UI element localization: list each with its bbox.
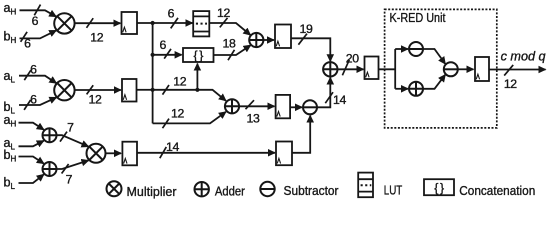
input b_H (row3)	[4, 148, 17, 164]
wire J2 to concat (6)	[153, 54, 182, 56]
subtractor legend subtractor symbol	[260, 182, 274, 196]
bus width label 18 on concat out	[223, 37, 236, 61]
bus width label 12 lower	[163, 107, 185, 129]
register R6	[276, 142, 292, 166]
svg-text:aH: aH	[4, 1, 17, 17]
svg-text:14: 14	[166, 140, 179, 154]
svg-text:6: 6	[24, 36, 31, 50]
wire split to A5	[395, 88, 408, 90]
svg-text:12: 12	[173, 74, 186, 88]
adder A2	[225, 99, 239, 113]
register R5	[276, 95, 291, 118]
legend LUT symbol	[358, 173, 373, 198]
input a_L (row3)	[4, 136, 16, 152]
svg-text:Multiplier: Multiplier	[127, 184, 178, 199]
input a_H (row3)	[4, 113, 17, 129]
wire A1 to R4	[263, 39, 274, 41]
subtractor S2	[409, 42, 423, 56]
wire A3 to M3 (7)	[57, 135, 89, 146]
wire a_H to A3	[19, 123, 44, 130]
bus width label 12 on M2 out	[87, 85, 102, 106]
wire A6 to R7 (20)	[338, 68, 364, 70]
svg-text:{ }: { }	[434, 181, 444, 195]
wire M3 to R3	[106, 152, 122, 154]
wire R2 out to vertical	[137, 89, 153, 91]
input b_L (row2)	[4, 100, 16, 116]
bus width label 6 on b_L	[24, 92, 37, 110]
input b_H (row1)	[4, 30, 17, 46]
bus width label 6 on concat feed	[159, 38, 171, 59]
register R2	[122, 79, 137, 102]
wire A5 to S3	[423, 75, 445, 89]
svg-text:12: 12	[90, 31, 103, 45]
wire upper 12 to A2	[153, 90, 226, 101]
wire R6 to S1	[292, 116, 310, 153]
input b_L (row3)	[4, 176, 16, 192]
legend multiplier symbol	[107, 181, 122, 196]
adder A3	[43, 128, 57, 142]
adder A5	[409, 82, 423, 96]
wire K-RED entry split	[394, 49, 396, 89]
wire a_H to M1 (6)	[20, 10, 57, 16]
wire b_L to A4	[19, 174, 44, 183]
wire R5 to S1	[290, 106, 302, 108]
bus width label 13 on A2 out	[246, 100, 260, 125]
svg-text:Subtractor: Subtractor	[284, 183, 340, 198]
bus width label 6 on a_L	[24, 62, 37, 80]
svg-text:20: 20	[346, 52, 359, 66]
bus width label 12 on output	[504, 65, 517, 91]
K-RED unit dashed box	[385, 9, 497, 128]
adder A1	[249, 33, 263, 47]
svg-text:7: 7	[66, 172, 73, 186]
svg-text:6: 6	[30, 92, 37, 106]
svg-text:12: 12	[504, 77, 517, 91]
bus width label 7 on A3 out	[60, 120, 74, 141]
wire M2 to R2 (12)	[75, 89, 121, 91]
concatenation CC1	[183, 48, 214, 62]
register R7	[365, 57, 379, 80]
svg-text:Concatenation: Concatenation	[459, 183, 535, 198]
wire M1 to R1 (12)	[75, 22, 121, 24]
svg-text:7: 7	[67, 120, 74, 134]
legend concatenation symbol	[424, 179, 454, 195]
wire A4 to M3 (7)	[57, 160, 89, 169]
svg-text:bL: bL	[4, 176, 16, 192]
multiplier M1	[54, 13, 74, 33]
svg-text:Adder: Adder	[215, 183, 246, 198]
LUT U1	[193, 11, 209, 36]
wire R3 to R6 (14)	[137, 152, 275, 154]
svg-text:6: 6	[168, 7, 175, 21]
svg-text:bH: bH	[4, 30, 17, 46]
svg-text:19: 19	[300, 22, 313, 36]
wire a_L to M2 (6)	[19, 76, 56, 84]
subtractor S1	[303, 100, 317, 114]
svg-text:12: 12	[217, 6, 230, 20]
svg-text:12: 12	[89, 93, 102, 107]
adder legend adder symbol	[195, 182, 209, 196]
svg-text:aL: aL	[4, 69, 16, 85]
bus width label 6 on b_H	[21, 32, 32, 51]
input a_H (row1)	[4, 1, 17, 17]
adder A6	[323, 62, 337, 76]
wire lower 12 to A2	[153, 112, 226, 124]
wire S2 to S3	[423, 49, 445, 64]
bus width label 6 on R1-LUT	[168, 7, 178, 29]
bus width label 7 on A4 out	[62, 164, 73, 186]
junction J2 on vertical (6 branch)	[151, 53, 155, 57]
svg-text:14: 14	[333, 93, 346, 107]
register R1	[122, 12, 138, 34]
wire concat feed vertical	[196, 64, 198, 90]
wire b_H to A4	[19, 157, 44, 164]
register R8	[475, 57, 489, 81]
bus width label 12 on LUT out	[217, 6, 230, 27]
multiplier M2	[54, 80, 74, 100]
wire b_L to M2 (6)	[19, 97, 56, 105]
subtractor S3	[444, 62, 458, 76]
wire A2 to R5 (13)	[239, 105, 274, 107]
wire concat to A1 (18)	[214, 45, 251, 55]
svg-text:K-RED Unit: K-RED Unit	[390, 10, 446, 25]
wire R8 to output c mod q	[489, 69, 546, 71]
input a_L (row2)	[4, 69, 16, 85]
svg-text:6: 6	[32, 14, 39, 28]
multiplier M3	[87, 144, 106, 163]
svg-text:{ }: { }	[193, 48, 203, 62]
bus width label 20 on A6 out	[342, 52, 359, 76]
wire S1 to A6 (14)	[317, 78, 330, 108]
wire R1 out to LUT (6)	[137, 22, 193, 24]
wire R7 into K-RED	[379, 68, 396, 70]
wire split to S2	[395, 48, 408, 50]
junction J4 R2 out	[151, 88, 155, 92]
bus width label 12 on M1 out	[87, 18, 104, 44]
bus width label 12 upper	[163, 74, 187, 94]
wire R4 to A6 (19)	[291, 38, 330, 61]
svg-text:6: 6	[159, 38, 166, 52]
wire LUT to A1 (12)	[209, 23, 250, 35]
register R3	[122, 142, 137, 166]
bus width label 19 on R4 out	[298, 22, 313, 45]
svg-text:6: 6	[30, 62, 37, 76]
svg-text:LUT: LUT	[384, 182, 403, 197]
wire vertical from J1 down	[152, 23, 154, 123]
junction J3 feed to concat	[195, 88, 199, 92]
junction J1 on R1 output	[151, 21, 155, 25]
bus width label 14 on R3 out	[160, 140, 180, 158]
svg-text:13: 13	[247, 111, 260, 125]
svg-text:18: 18	[223, 37, 236, 51]
wire a_L to A3	[19, 141, 44, 147]
svg-text:12: 12	[171, 107, 184, 121]
wire b_H to M1 (6)	[20, 30, 57, 38]
wire S3 to R8	[458, 68, 474, 70]
svg-text:c mod q: c mod q	[501, 48, 547, 63]
register R4	[275, 25, 291, 49]
bus width label 6 on a_H	[32, 5, 41, 28]
bus width label 14 on S1 out	[325, 92, 346, 107]
adder A4	[43, 162, 57, 176]
